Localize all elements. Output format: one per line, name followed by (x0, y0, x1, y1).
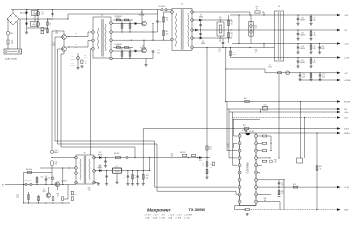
svg-text:R31: R31 (264, 198, 267, 200)
svg-text:+5VSB: +5VSB (344, 80, 351, 82)
svg-text:R44: R44 (71, 56, 74, 58)
IC1 pin 5 (238, 164, 241, 167)
wire aux vert (77, 53, 79, 67)
IC1 pin 11 (255, 171, 258, 174)
fuse F1 (7, 40, 9, 44)
svg-text:R34: R34 (319, 166, 322, 168)
wire T2 Lpin1 lead (88, 31, 92, 33)
svg-text:R45: R45 (71, 63, 74, 65)
wire C26 leg (297, 44, 299, 52)
IC1 pin 6 (238, 171, 241, 174)
capacitor C24 (297, 19, 300, 20)
IC1 pin 1 (238, 135, 241, 138)
junction (152, 31, 153, 32)
svg-text:D10: D10 (55, 150, 58, 152)
wire R chain vert (163, 12, 165, 40)
svg-text:0.1: 0.1 (256, 9, 258, 11)
wire E1 stub (5, 184, 22, 186)
wire Q2 emitter gnd (145, 59, 147, 64)
junction (297, 43, 298, 44)
rail arrow GNDS (337, 132, 340, 135)
svg-text:C15: C15 (16, 194, 19, 196)
junction (62, 184, 63, 185)
wire Q1 comp row (113, 19, 133, 21)
svg-text:C27: C27 (301, 60, 304, 62)
junction (152, 23, 153, 24)
wire icr p7 (257, 201, 280, 203)
wire T1 top feed (164, 11, 172, 13)
diode LED1 (270, 160, 273, 163)
resistor R55 (71, 191, 73, 195)
svg-text:+5V: +5V (344, 73, 348, 75)
bridge rectifier BD1 (7, 13, 19, 25)
wire C17 leg (106, 171, 108, 183)
svg-text:C945: C945 (42, 191, 45, 193)
svg-text:100/2W: 100/2W (70, 58, 75, 60)
resistor R44 (62, 197, 64, 201)
resistor R-C24 (310, 17, 312, 21)
wire Q5 collector (63, 31, 65, 35)
wire row 184 (22, 184, 76, 186)
svg-text:220: 220 (313, 48, 316, 50)
wire bus Vaux left (51, 31, 53, 150)
wire 5v res leg (310, 73, 312, 78)
thermistor NTC1 (6, 31, 9, 35)
wire col C3 (47, 19, 49, 28)
wire row 172 (24, 171, 52, 173)
svg-text:R: R (314, 17, 315, 19)
wire icr p12 (257, 164, 262, 166)
svg-text:14A 30A 0.3A 10A 0.8A: 14A 30A 0.3A 10A 0.8A 1.5A (145, 217, 190, 220)
wire to Q2 base (137, 50, 142, 52)
ground aux1 (76, 67, 79, 70)
ground AC (25, 31, 28, 34)
inductor L3 body (275, 11, 284, 61)
wire RC27 leg (310, 58, 312, 66)
junction (106, 170, 107, 171)
inductor L5 (286, 71, 290, 75)
jumper JP3 (30, 183, 32, 185)
wire sec row2 (192, 19, 232, 21)
ground C26 (296, 51, 299, 54)
wire T2 Lpin jog a (87, 32, 89, 37)
wire sec row1 (192, 11, 250, 13)
junction (300, 101, 301, 102)
fuse F2 (126, 157, 128, 159)
capacitor C20 (127, 176, 130, 177)
wire out row47 (194, 47, 275, 49)
svg-text:47u: 47u (209, 149, 212, 151)
junction (121, 31, 122, 32)
capacitor C14 (45, 179, 48, 180)
wire Q4 em (56, 187, 58, 190)
svg-text:C25: C25 (301, 32, 304, 34)
resistor R12 (163, 31, 165, 36)
junction (206, 157, 207, 158)
svg-text:R43: R43 (75, 33, 78, 35)
svg-text:C23: C23 (218, 49, 221, 51)
svg-text:FR103: FR103 (98, 168, 102, 170)
svg-text:+: + (259, 173, 261, 175)
resistor R-C27 (310, 59, 312, 63)
IC1 pin 9 (255, 186, 258, 189)
capacitor C27 (297, 61, 300, 62)
junction (249, 14, 250, 15)
jumper JP2 (25, 183, 27, 185)
ground R-C25 (309, 38, 312, 41)
ground C29 (318, 78, 321, 81)
output arrow -12V (337, 14, 340, 17)
capacitor C2 (37, 22, 40, 27)
svg-text:10n: 10n (281, 185, 283, 187)
svg-text:D7: D7 (200, 14, 202, 16)
resistor R36 (36, 178, 38, 183)
svg-text:10: 10 (57, 196, 59, 198)
svg-text:220: 220 (313, 20, 316, 22)
resistor R56 (71, 197, 73, 201)
wire row 203 (24, 202, 70, 204)
resistor R28 (262, 142, 267, 144)
svg-text:GND: GND (344, 210, 349, 212)
wire rail r2 (227, 108, 340, 110)
wire pin6 stub (234, 142, 238, 144)
regulator IC3 TL431 (112, 168, 121, 173)
wire RC24 leg (310, 15, 312, 23)
svg-text:8.2: 8.2 (166, 33, 168, 35)
rail arrow -5Vs (337, 116, 340, 119)
svg-text:C: C (124, 175, 125, 177)
svg-text:Z1: Z1 (44, 29, 46, 31)
svg-text:1n2: 1n2 (157, 52, 160, 54)
transformer T3 body (76, 155, 94, 184)
svg-text:C11: C11 (84, 55, 86, 57)
svg-text:T2: T2 (101, 15, 103, 17)
ground C28 (298, 78, 301, 81)
svg-text:R45: R45 (57, 194, 60, 196)
junction (132, 170, 133, 171)
junction (263, 14, 264, 15)
svg-text:10k: 10k (219, 41, 222, 43)
opto IC2 (297, 158, 303, 163)
ground R-C26 (309, 51, 312, 54)
output arrow -5V (337, 29, 340, 32)
T3 pin R3 (93, 181, 96, 184)
wire pin5 stub (234, 135, 238, 137)
wire C27 leg (297, 58, 299, 66)
svg-text:47: 47 (255, 52, 257, 54)
capacitor C26 (297, 47, 300, 48)
resistor R6 (129, 24, 131, 28)
capacitor C25 (297, 34, 300, 35)
wire 52 down (51, 166, 53, 185)
svg-text:C945: C945 (55, 33, 59, 35)
junction (23, 184, 24, 185)
T3 pin L3 (75, 172, 78, 175)
wire icr p8 (257, 193, 271, 195)
svg-text:100/2W: 100/2W (70, 65, 75, 67)
ground C24 (296, 23, 299, 26)
diode D7 (199, 19, 201, 21)
jumper J2 (165, 9, 167, 11)
T2 pin R2 (110, 31, 113, 34)
T2 pin L2 (92, 39, 95, 42)
wire col D1 (26, 10, 28, 32)
svg-text:102: 102 (84, 57, 86, 59)
junction (68, 167, 69, 168)
transformer T2 core b (102, 19, 104, 57)
wire Q2 emitter row (112, 58, 146, 60)
wire filter row mid (27, 18, 54, 20)
wire C16 leg (105, 158, 107, 165)
varistor VR2 (41, 31, 44, 34)
zener ZD2 (51, 177, 54, 180)
junction (222, 47, 223, 48)
junction (310, 29, 311, 30)
junction (304, 117, 305, 118)
svg-text:1.5: 1.5 (166, 20, 168, 22)
resistor R8 (124, 47, 128, 49)
resistor R21 (310, 74, 312, 78)
diode D15 (199, 156, 201, 158)
svg-text:C19: C19 (231, 21, 234, 23)
resistor R14 (228, 21, 230, 26)
choke L2 (31, 21, 38, 26)
wire AC top rail (11, 9, 158, 11)
svg-text:+5Vs: +5Vs (344, 112, 348, 114)
IC1 pin 14 (255, 149, 258, 152)
svg-text:L3: L3 (278, 6, 280, 8)
resistor R47 (116, 157, 121, 159)
connector AC socket (4, 49, 22, 54)
wire T3 gnd row (94, 182, 98, 184)
wire bus B to IC (157, 191, 238, 194)
wire icr link (270, 136, 272, 151)
capacitor C31 (278, 183, 281, 184)
svg-text:R: R (314, 32, 315, 34)
wire r6 left corner (142, 129, 144, 171)
junction (134, 157, 135, 158)
ground IC1 (246, 213, 249, 216)
wire snubber top (220, 20, 222, 22)
junction (52, 9, 53, 10)
resistor R32 (278, 190, 280, 194)
svg-text:C29: C29 (322, 74, 325, 76)
junction (206, 47, 207, 48)
svg-text:NTC: NTC (10, 33, 14, 35)
svg-text:R: R (314, 46, 315, 48)
svg-text:62k: 62k (202, 165, 204, 167)
diode D8 (195, 29, 197, 31)
wire bridge right (19, 18, 27, 20)
transformer T3 winding L (80, 159, 81, 180)
svg-text:R43: R43 (75, 44, 78, 46)
wire Q1 vert a (121, 20, 123, 32)
ground aux2 (80, 65, 83, 68)
wire left col (23, 172, 25, 203)
ground TL431 (115, 181, 118, 184)
svg-text:R55: R55 (75, 193, 78, 195)
output arrow +12V (337, 42, 340, 45)
wire bus A to IC (155, 186, 238, 188)
resistor R35 (27, 171, 32, 173)
svg-text:3300/10: 3300/10 (300, 48, 305, 50)
svg-text:P.G.: P.G. (344, 109, 348, 111)
svg-text:D13: D13 (98, 166, 101, 168)
resistor R48 (182, 154, 187, 156)
wire R17 join2 (263, 12, 265, 15)
svg-text:C7: C7 (158, 50, 160, 52)
svg-text:102: 102 (85, 63, 87, 65)
svg-text:471: 471 (231, 23, 233, 25)
transformer T3 core a (83, 156, 85, 184)
svg-text:F1: F1 (11, 41, 13, 43)
T2 pin L3 (92, 47, 95, 50)
wire out row2 (230, 29, 340, 31)
IC1 pin 2 (238, 142, 241, 145)
capacitor C30 (245, 131, 248, 132)
wire Q2 vert b (129, 48, 131, 59)
diode D6 (135, 50, 137, 52)
wire Q1 collector (141, 10, 143, 22)
capacitor C5b (51, 13, 53, 16)
junction (200, 29, 201, 30)
svg-text:IC3: IC3 (115, 166, 117, 168)
wire bus drive B (57, 49, 59, 144)
svg-text:3.3Vs: 3.3Vs (344, 129, 349, 131)
junction (68, 46, 69, 47)
inductor L3 core b (279, 12, 281, 60)
svg-text:100/2W: 100/2W (74, 46, 79, 48)
wire AC leg b (19, 19, 21, 49)
svg-text:Q1: Q1 (140, 12, 142, 14)
wire T2 L3 stub (90, 48, 91, 50)
wire bus drive A (54, 37, 56, 141)
svg-text:Q4 A733: Q4 A733 (62, 179, 67, 182)
capacitor C5 (156, 21, 159, 22)
capacitor C9 (199, 34, 202, 35)
wire RC26 leg (310, 44, 312, 52)
transistor Q4 (55, 182, 60, 187)
svg-text:1W: 1W (254, 28, 257, 30)
wire T3 sec row1 (94, 157, 210, 159)
junction (310, 43, 311, 44)
wire icr p13 (257, 157, 270, 159)
wire bus A drop (154, 141, 156, 187)
svg-text:+12V: +12V (344, 44, 349, 46)
resistor R27 (262, 135, 267, 137)
breaker outline (249, 22, 254, 37)
rail arrow 3.3V fb (337, 186, 340, 189)
capacitor C27b (212, 162, 214, 166)
wire varistor stub (46, 28, 48, 33)
wire icr p14 (257, 150, 262, 152)
svg-text:115AC 230AC: 115AC 230AC (5, 58, 18, 61)
svg-text:R15: R15 (231, 33, 234, 35)
svg-text:1/50: 1/50 (16, 197, 19, 199)
wire bus ic3 (232, 118, 234, 166)
junction (225, 101, 226, 102)
svg-text:102: 102 (219, 19, 222, 21)
svg-text:C6: C6 (42, 11, 44, 13)
svg-text:L2: L2 (33, 22, 35, 24)
wire Q2 collector (143, 40, 145, 48)
ground R53 (142, 183, 145, 186)
svg-text:104: 104 (210, 166, 212, 168)
junction (233, 119, 234, 120)
wire vert 207 (206, 48, 208, 158)
transformer T2 winding L (97, 28, 98, 49)
svg-text:D11: D11 (41, 177, 44, 179)
resistor R25 (244, 128, 249, 130)
wire snubber bot (220, 36, 222, 38)
wire D20 stub (259, 109, 261, 112)
junction (319, 72, 320, 73)
junction (263, 43, 264, 44)
resistor R39 (38, 196, 40, 200)
ground R-C24 (309, 23, 312, 26)
wire emitter row ext (146, 58, 153, 60)
svg-text:C6 1n/250: C6 1n/250 (159, 6, 166, 8)
junction (260, 111, 261, 112)
junction (238, 14, 239, 15)
wire C21 leg (137, 171, 139, 183)
svg-text:T1: T1 (181, 3, 184, 5)
svg-text:L5: L5 (269, 65, 271, 67)
svg-text:R30: R30 (274, 160, 277, 162)
transformer T2 winding R (105, 24, 106, 51)
junction (129, 31, 130, 32)
svg-text:R12: R12 (166, 31, 169, 33)
junction (129, 58, 130, 59)
wire bus C corner (61, 146, 135, 148)
svg-text:C25: C25 (321, 46, 324, 48)
T2 pin R3 (110, 39, 113, 42)
wire 5v cap leg (299, 73, 301, 78)
wire row 168 (40, 167, 76, 169)
svg-text:+3.3V +5V -5V +12V -12V: +3.3V +5V -5V +12V -12V +5VSB (144, 215, 193, 217)
svg-text:R18: R18 (254, 25, 257, 27)
svg-text:D15: D15 (199, 160, 202, 162)
wire fuse pair leg (250, 15, 252, 44)
svg-text:C5: C5 (159, 21, 161, 23)
wire R54 stub (230, 48, 232, 58)
resistor R24 (245, 101, 250, 103)
wire bridge left leg (7, 18, 8, 20)
svg-text:-5Vs: -5Vs (344, 118, 348, 120)
svg-text:R35 100k: R35 100k (26, 169, 32, 171)
wire col C1 (37, 10, 39, 29)
transformer T2 body (93, 17, 111, 58)
wire T3 sec row2 (94, 170, 150, 172)
IC1 pin 3 (238, 149, 241, 152)
wire rail r1 (226, 101, 340, 103)
T3 pin R1 (93, 156, 96, 159)
wire R52 leg (132, 171, 134, 183)
svg-text:R13: R13 (219, 39, 222, 41)
svg-text:47: 47 (231, 35, 233, 37)
resistor R1 (47, 29, 49, 33)
transformer T1 body (172, 8, 192, 50)
IC1 pin 16 (255, 135, 258, 138)
svg-text:R: R (314, 60, 315, 62)
wire icr p10 (257, 179, 284, 181)
snubber box (217, 22, 224, 36)
junction (200, 19, 201, 20)
wire Q pair to T2 (66, 36, 69, 38)
junction (37, 18, 38, 19)
op-amp IC1 TL494 body (240, 133, 256, 206)
junction (310, 57, 311, 58)
